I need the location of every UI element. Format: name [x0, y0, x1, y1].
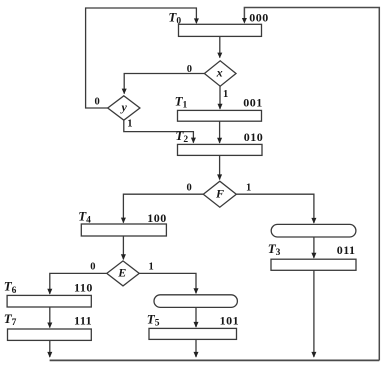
wire T7 to bottom collector: [49, 340, 51, 357]
wire E 1-branch to conditional output: [139, 273, 196, 293]
svg-text:1: 1: [149, 261, 154, 272]
wire T0 to decision x: [219, 36, 221, 57]
svg-text:110: 110: [74, 281, 93, 295]
wire T2 to decision F: [219, 155, 221, 179]
svg-text:111: 111: [74, 313, 92, 327]
state box T2: [178, 144, 263, 155]
wire T4 to decision E: [122, 236, 124, 259]
decision diamond x: [204, 61, 236, 86]
decision diamond y: [108, 96, 140, 120]
decision diamond E: [107, 261, 139, 286]
wire F 1-branch to conditional output: [236, 194, 314, 223]
wire x 1-branch to T1: [219, 86, 221, 109]
svg-text:1: 1: [127, 118, 132, 129]
svg-text:1: 1: [223, 89, 228, 100]
wire y 1-branch to T2: [124, 120, 194, 142]
state box T5: [149, 328, 237, 339]
wire T6 to T7: [49, 307, 51, 328]
wire T1 to T2: [219, 121, 221, 143]
svg-text:T3: T3: [268, 241, 281, 258]
svg-text:T0: T0: [168, 9, 181, 26]
svg-text:T4: T4: [78, 209, 91, 226]
svg-text:x: x: [216, 65, 223, 79]
svg-text:1: 1: [246, 182, 251, 193]
svg-text:011: 011: [337, 243, 356, 257]
svg-text:0: 0: [95, 96, 100, 107]
svg-text:0: 0: [187, 183, 192, 194]
svg-text:T7: T7: [4, 311, 17, 328]
state box T6: [7, 295, 91, 307]
wire T3 to bottom collector: [313, 270, 315, 357]
wire x 0-branch to decision y: [124, 74, 204, 94]
wire T5 to bottom collector: [195, 339, 197, 357]
state box T0: [179, 24, 262, 36]
svg-text:010: 010: [244, 130, 264, 144]
node entry arrow into T0 (right): [242, 18, 247, 24]
conditional output box on F 1-path: [271, 224, 356, 237]
svg-text:101: 101: [220, 313, 240, 327]
wire conditional output to T5: [195, 307, 197, 327]
state box T3: [271, 259, 356, 270]
state box T4: [81, 224, 166, 236]
svg-text:y: y: [120, 100, 128, 114]
wire left feedback from decision y 0-exit up and into T0: [86, 8, 197, 108]
svg-text:T5: T5: [147, 312, 160, 329]
svg-text:000: 000: [249, 10, 268, 24]
state box T7: [8, 329, 92, 340]
node entry arrow into T0 (left): [194, 18, 199, 24]
decision diamond F: [203, 181, 236, 207]
svg-text:0: 0: [90, 261, 95, 272]
wire bottom collector line: [50, 359, 380, 361]
svg-text:T1: T1: [175, 94, 188, 111]
svg-text:001: 001: [243, 96, 263, 110]
conditional output box on E 1-path: [154, 295, 237, 308]
svg-text:100: 100: [147, 211, 167, 225]
svg-text:T6: T6: [4, 279, 17, 296]
svg-text:E: E: [117, 266, 126, 280]
svg-text:T2: T2: [175, 128, 188, 145]
svg-text:F: F: [215, 187, 224, 201]
svg-text:0: 0: [187, 64, 192, 75]
wire E 0-branch to T6: [50, 273, 107, 293]
wire right feedback from bottom collector up and into T0: [244, 8, 379, 361]
state box T1: [178, 110, 262, 121]
wire conditional output to T3: [313, 237, 315, 258]
wire F 0-branch to T4: [123, 194, 203, 222]
